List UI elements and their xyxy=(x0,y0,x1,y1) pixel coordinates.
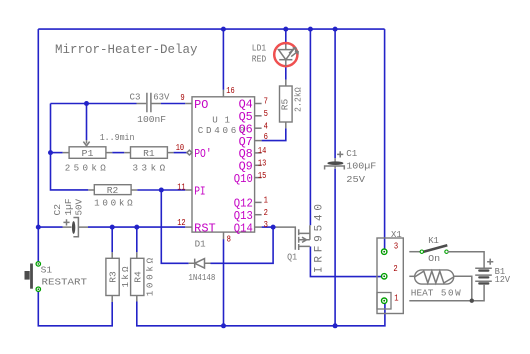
svg-text:3: 3 xyxy=(264,219,268,230)
wire X1.3 to K1 xyxy=(409,251,420,253)
svg-text:PI: PI xyxy=(194,184,206,198)
svg-text:25V: 25V xyxy=(346,174,365,185)
pin Q9 stub xyxy=(255,164,262,166)
junction LED top xyxy=(283,27,288,32)
junction pin16 top xyxy=(221,27,226,32)
svg-text:1..9min: 1..9min xyxy=(100,132,135,143)
pin Q10 stub xyxy=(255,177,262,179)
junction P1 left rail xyxy=(48,150,53,155)
heater HEAT 50W xyxy=(415,270,454,284)
svg-text:PO': PO' xyxy=(194,147,212,161)
svg-text:HEAT: HEAT xyxy=(411,287,434,298)
pin Q14 stub xyxy=(255,226,262,228)
svg-text:12V: 12V xyxy=(495,274,511,285)
svg-text:50W: 50W xyxy=(441,287,461,298)
svg-text:3: 3 xyxy=(394,241,398,252)
wire Q1 source rail xyxy=(309,29,311,225)
wire X1.2 to heater xyxy=(409,275,414,277)
svg-text:6: 6 xyxy=(264,131,268,142)
switch K1 xyxy=(420,245,448,253)
pin Q13 stub xyxy=(255,214,262,216)
svg-text:LD1: LD1 xyxy=(252,42,267,53)
pin Q5 stub xyxy=(255,115,262,117)
LED LD1 xyxy=(274,43,298,66)
svg-text:1: 1 xyxy=(264,195,269,206)
svg-text:Mirror-Heater-Delay: Mirror-Heater-Delay xyxy=(55,42,198,57)
junction P1 wiper xyxy=(84,101,89,106)
wire X1 pin3 rail xyxy=(384,29,386,249)
junction C1 ground xyxy=(333,323,338,328)
svg-text:1kΩ: 1kΩ xyxy=(120,266,131,287)
wire Q1 drain to X1 pin2 xyxy=(310,247,381,277)
svg-text:63V: 63V xyxy=(153,91,170,102)
junction R2/PI/D1 xyxy=(159,188,164,193)
wire Q14 pin3 to gate xyxy=(262,226,276,228)
wire top supply rail xyxy=(38,28,384,30)
pin Q12 stub xyxy=(255,201,262,203)
pin RST stub xyxy=(185,226,192,228)
wire PI branch down to D1 cathode xyxy=(161,190,188,263)
svg-text:50V: 50V xyxy=(73,199,84,216)
resistor R2 xyxy=(88,185,137,195)
svg-text:C3: C3 xyxy=(130,91,141,102)
svg-text:R3: R3 xyxy=(108,271,119,283)
wire left inner rail P1/R2 xyxy=(51,104,89,190)
capacitor C3 xyxy=(137,93,162,113)
svg-text:R1: R1 xyxy=(143,148,155,159)
pin PO stub xyxy=(185,103,192,105)
svg-text:R4: R4 xyxy=(132,271,143,283)
svg-text:R5: R5 xyxy=(279,99,290,111)
svg-text:C2: C2 xyxy=(52,204,63,216)
svg-text:12: 12 xyxy=(177,217,185,228)
capacitor C1 xyxy=(325,151,345,169)
junction C1 top xyxy=(333,27,338,32)
label battery plus xyxy=(487,259,493,265)
diode D1 xyxy=(189,259,211,268)
wire heater to battery minus xyxy=(454,276,472,300)
wire pin16 xyxy=(222,29,224,90)
svg-text:1N4148: 1N4148 xyxy=(188,272,215,283)
svg-text:1: 1 xyxy=(394,293,399,304)
svg-text:D1: D1 xyxy=(195,239,206,250)
svg-text:Q1: Q1 xyxy=(287,251,297,262)
svg-text:Q14: Q14 xyxy=(234,221,253,235)
junction R3 top xyxy=(110,225,115,230)
wire D1 anode to Q14 net xyxy=(211,227,274,263)
svg-text:4: 4 xyxy=(264,120,269,131)
pin PI stub xyxy=(185,189,192,191)
wire S1 bottom to R3 bottom xyxy=(38,291,112,326)
pin Q8 stub xyxy=(255,152,262,154)
pin 16 stub xyxy=(222,90,224,97)
connector X1 xyxy=(377,238,403,314)
svg-text:C1: C1 xyxy=(346,148,357,159)
svg-text:2: 2 xyxy=(264,207,268,218)
svg-text:2: 2 xyxy=(393,263,397,274)
wire R4 top xyxy=(136,227,138,252)
wire R5 bottom to Q7 pin6 xyxy=(262,128,286,140)
junction C2 left rail xyxy=(36,225,41,230)
svg-text:10: 10 xyxy=(176,142,184,153)
svg-text:K1: K1 xyxy=(428,235,439,246)
svg-text:11: 11 xyxy=(177,181,186,192)
potentiometer P1 xyxy=(63,140,112,158)
pin Q6 stub xyxy=(255,127,262,129)
wire PO net with C3 xyxy=(51,103,186,105)
wire K1 to battery plus xyxy=(448,252,485,269)
svg-text:On: On xyxy=(428,253,440,264)
junction Q1 source top xyxy=(308,27,313,32)
wire R2 to PI xyxy=(137,189,185,191)
svg-text:X1: X1 xyxy=(391,229,402,240)
svg-text:5: 5 xyxy=(264,108,268,119)
wire pin8 to ground xyxy=(223,239,225,326)
op-amp U1 CD4060 box xyxy=(192,97,255,232)
resistor R3 xyxy=(106,252,119,302)
pin Q7 stub xyxy=(255,140,262,142)
battery B1 xyxy=(475,268,492,284)
junction R4 top xyxy=(134,225,139,230)
svg-text:7: 7 xyxy=(264,96,268,107)
svg-text:PO: PO xyxy=(194,98,208,112)
resistor R4 xyxy=(131,252,144,301)
resistor R1 xyxy=(124,147,173,159)
wire P1 to R1 xyxy=(112,152,124,154)
wire R3 top xyxy=(111,227,113,252)
svg-text:RED: RED xyxy=(252,53,267,64)
svg-text:14: 14 xyxy=(258,145,267,156)
svg-text:15: 15 xyxy=(258,170,266,181)
wire R1 to PO' xyxy=(174,152,187,154)
wire C1 rail xyxy=(334,29,336,326)
pin 8 stub xyxy=(223,232,225,239)
wire P1 wiper from PO net xyxy=(86,104,88,141)
svg-text:RESTART: RESTART xyxy=(42,277,88,288)
svg-text:P1: P1 xyxy=(82,148,95,159)
svg-text:8: 8 xyxy=(227,233,231,244)
svg-text:100µF: 100µF xyxy=(346,160,376,171)
svg-text:9: 9 xyxy=(180,92,184,103)
svg-text:16: 16 xyxy=(226,85,234,96)
svg-text:13: 13 xyxy=(258,158,266,169)
wire P1 left xyxy=(51,152,63,154)
pin PO' inversion diamond xyxy=(187,150,192,155)
junction Q14/D1/gate xyxy=(271,225,276,230)
transistor Q1 IRF9540 xyxy=(276,225,310,250)
svg-text:Q10: Q10 xyxy=(234,172,253,186)
svg-text:R2: R2 xyxy=(107,185,119,196)
switch S1 xyxy=(25,262,41,292)
pin Q4 stub xyxy=(255,103,262,105)
junction pin8 ground xyxy=(221,323,226,328)
svg-text:S1: S1 xyxy=(41,265,53,276)
wire RST net xyxy=(38,226,185,228)
wire battery minus to X1.1 xyxy=(409,284,484,301)
svg-text:2.2kΩ: 2.2kΩ xyxy=(293,87,304,112)
wire left supply rail xyxy=(37,29,39,262)
svg-text:RST: RST xyxy=(194,221,216,235)
wire ground rail bottom xyxy=(137,302,385,326)
svg-text:100nF: 100nF xyxy=(137,114,166,125)
wire LED chain xyxy=(285,29,287,80)
resistor R5 xyxy=(280,80,293,128)
junction heater/battery xyxy=(470,299,474,303)
capacitor C2 xyxy=(63,218,89,237)
